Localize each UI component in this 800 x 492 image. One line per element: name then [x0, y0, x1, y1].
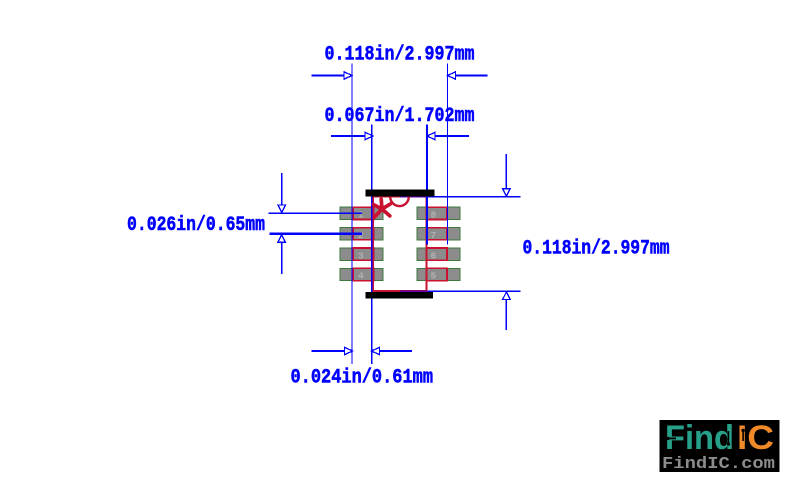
- wire: D3 lower arrow stem: [281, 242, 283, 274]
- wire: D4 right arrow leader: [379, 350, 412, 352]
- arrowhead: D5 down arrow (points down at y=196.7): [503, 189, 511, 197]
- arrowhead: D2 right (points left at x=427): [427, 132, 435, 139]
- lead outline pin 3: [353, 248, 374, 260]
- svg-text:FindIC.com: FindIC.com: [662, 455, 775, 474]
- svg-text:6: 6: [431, 250, 437, 261]
- package body outline U1: [373, 197, 427, 292]
- wire: D2 right extension line x=427: [426, 125, 428, 245]
- lead outline pin 5: [427, 268, 448, 280]
- silkscreen bar top: [366, 190, 435, 197]
- wire: D3 pad-1 reference line y=213.4: [269, 212, 362, 214]
- logo trace detail on d: [727, 431, 730, 446]
- logo trace detail on F: [666, 437, 676, 440]
- arrowhead: D3 down arrow (points down at y=213): [278, 205, 286, 213]
- wire: D5 lower arrow stem: [505, 299, 507, 330]
- pad 3: [340, 248, 383, 260]
- arrowhead: D4 left (points right at x=352.5): [345, 347, 353, 354]
- arrowhead: D1 left (points right at x=352): [344, 72, 352, 79]
- silkscreen bar bottom: [366, 292, 434, 299]
- lead outline pin 8: [427, 207, 448, 219]
- wire: D1 left arrow leader: [312, 75, 346, 77]
- lead outline pin 7: [427, 228, 448, 240]
- svg-text:1: 1: [358, 210, 364, 221]
- wire: D5 top purple overlap segment: [400, 196, 427, 198]
- wire: D5 top reference line (blue part) y=196.7: [427, 196, 521, 198]
- arrowhead: D1 right (points left at x=447.5): [448, 72, 456, 79]
- svg-text:4: 4: [358, 271, 364, 282]
- svg-text:8: 8: [431, 210, 437, 221]
- svg-text:0.026in/0.65mm: 0.026in/0.65mm: [127, 214, 265, 237]
- pad 5: [417, 268, 460, 280]
- wire: D3 pad-2 reference line y=233.8: [270, 233, 363, 235]
- svg-text:5: 5: [431, 271, 437, 282]
- wire: D2 left / D4 right shared extension line x=372: [371, 125, 373, 365]
- svg-text:3: 3: [358, 250, 364, 261]
- pad 8 (copper land, right column): [417, 207, 460, 219]
- wire: D2 right arrow leader: [435, 135, 470, 137]
- pad 4: [340, 268, 383, 280]
- lead outline pin 1: [353, 207, 374, 219]
- pad 7: [417, 228, 460, 240]
- wire: D4 left arrow leader: [312, 350, 346, 352]
- svg-text:2: 2: [358, 230, 364, 241]
- pad 2: [340, 228, 383, 240]
- pad 1 (copper land, left column): [340, 207, 383, 219]
- lead outline pin 4: [353, 268, 374, 280]
- svg-text:0.118in/2.997mm: 0.118in/2.997mm: [523, 238, 670, 261]
- svg-text:0.067in/1.702mm: 0.067in/1.702mm: [325, 105, 475, 128]
- lead outline pin 6: [427, 248, 448, 260]
- pin-1 index notch (arc): [390, 197, 409, 206]
- wire: D5 bottom reference line (blue part) y=291.3: [427, 290, 521, 292]
- svg-text:7: 7: [431, 230, 437, 241]
- wire: D1 right extension line x=447.5: [447, 64, 449, 245]
- logo trace detail on I: [741, 429, 744, 441]
- wire: D5 bottom purple overlap segment: [400, 290, 427, 292]
- arrowhead: D3 up arrow (points up at y=234.5): [278, 235, 286, 243]
- arrowhead: D2 left (points right at x=373): [365, 132, 373, 139]
- arrowhead: D4 right (points left at x=371.5): [372, 347, 380, 354]
- arrowhead: D5 up arrow (points up at y=291.8): [503, 292, 511, 300]
- wire: D3 upper arrow stem: [281, 173, 283, 205]
- pin-1 marker asterisk: [374, 199, 391, 217]
- wire: D2 left arrow leader: [331, 135, 365, 137]
- wire: D1 right arrow leader: [455, 75, 488, 77]
- lead outline pin 2: [353, 228, 374, 240]
- pad 6: [417, 248, 460, 260]
- logo trace detail on C: [763, 432, 767, 442]
- logo plate (FindIC): [660, 420, 780, 472]
- wire: D1 left extension line x=352: [351, 64, 353, 365]
- svg-text:0.118in/2.997mm: 0.118in/2.997mm: [325, 44, 475, 67]
- svg-text:0.024in/0.61mm: 0.024in/0.61mm: [291, 367, 434, 390]
- wire: D5 upper arrow stem: [505, 154, 507, 189]
